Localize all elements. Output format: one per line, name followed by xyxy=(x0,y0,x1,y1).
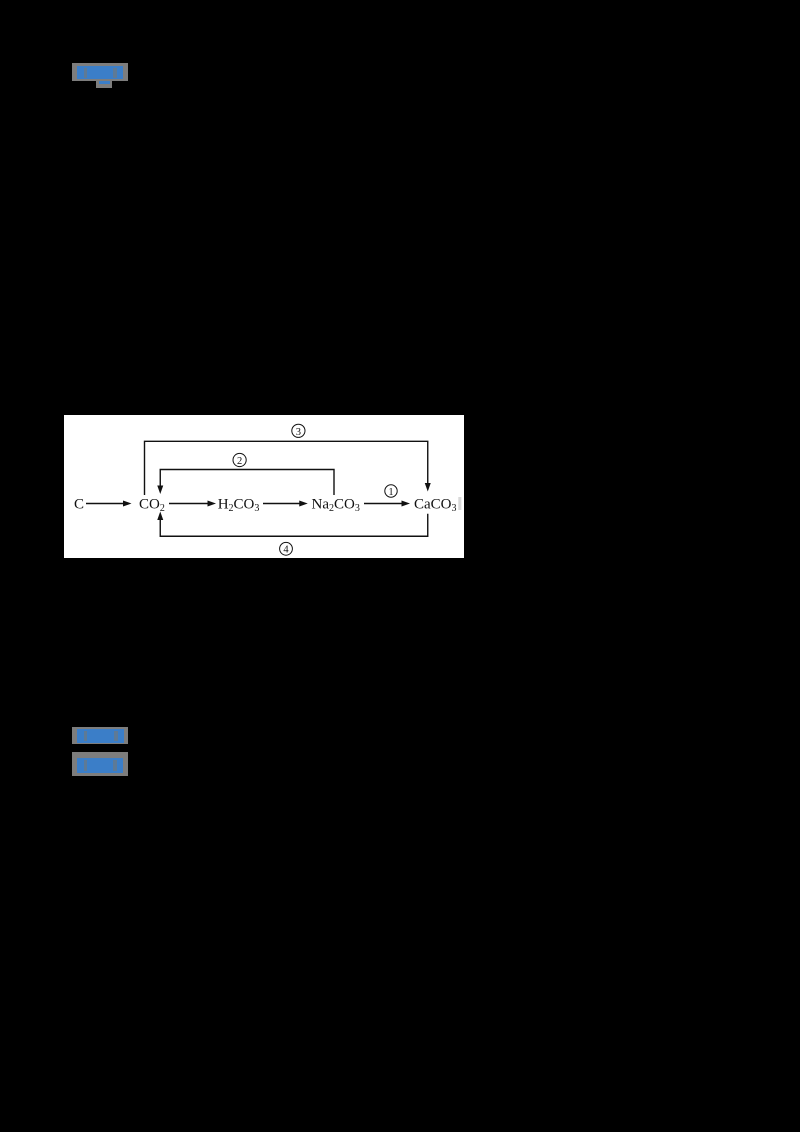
label explain blue text fill xyxy=(77,758,123,773)
svg-text:Na2CO3: Na2CO3 xyxy=(311,497,359,515)
arrowhead into H2CO3 xyxy=(207,501,216,507)
wire loop 3 CO2 up-right down to CaCO3 xyxy=(144,442,427,496)
label analysis【解析】 gray field box xyxy=(72,727,128,744)
arrowhead loop3 down into CaCO3 top xyxy=(424,483,430,492)
label explain bracket marks xyxy=(84,760,87,771)
svg-text:1: 1 xyxy=(388,487,393,498)
wire arrow C to CO2 xyxy=(86,503,124,505)
wire loop 4 CaCO3 down-left up to CO2 xyxy=(160,514,428,537)
svg-text:C: C xyxy=(74,497,84,513)
arrowhead into CaCO3 xyxy=(401,501,410,507)
cursor artifact right of CaCO3 xyxy=(458,497,461,510)
svg-text:2: 2 xyxy=(236,456,241,467)
label analysis blue text fill xyxy=(77,729,124,743)
wire arrow CO2 to H2CO3 xyxy=(169,503,208,505)
circled 3 xyxy=(291,424,304,438)
panel background xyxy=(64,415,464,558)
arrowhead into Na2CO3 xyxy=(299,501,308,507)
label answer blue text fill xyxy=(77,66,123,79)
svg-text:4: 4 xyxy=(283,545,289,556)
label answer selected tail below xyxy=(96,81,112,88)
diagram white panel with carbon-cycle flowchart xyxy=(64,415,464,558)
circled 2 xyxy=(233,454,246,468)
circled 1 xyxy=(384,485,396,498)
svg-text:CaCO3: CaCO3 xyxy=(414,497,457,515)
arrowhead loop2 down into CO2 top xyxy=(157,486,163,495)
label answer bracket marks xyxy=(84,68,87,78)
label explain【详解】 gray field box xyxy=(72,752,128,776)
svg-text:3: 3 xyxy=(295,427,300,438)
pdf viewer top dark bar (opaque black) xyxy=(30,4,800,12)
arrowhead loop4 up into CO2 bottom xyxy=(157,512,163,521)
wire arrow 1 Na2CO3 to CaCO3 xyxy=(364,503,402,505)
label analysis bracket marks xyxy=(84,731,87,741)
circled 4 xyxy=(279,543,292,556)
arrowhead into CO2 (from C) xyxy=(123,501,132,507)
wire loop 2 Na2CO3 up-left down to CO2 xyxy=(160,470,334,496)
label answer【答案】 gray field box xyxy=(72,63,128,81)
wire arrow H2CO3 to Na2CO3 xyxy=(263,503,300,505)
svg-text:H2CO3: H2CO3 xyxy=(217,497,259,515)
pdf viewer bottom dark bar (opaque black) xyxy=(0,1124,800,1132)
